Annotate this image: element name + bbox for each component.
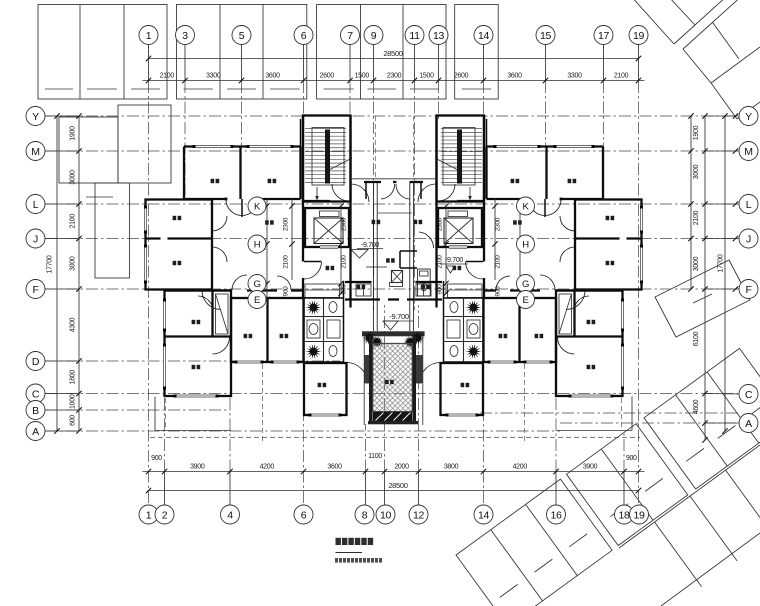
right dimension second line (690, 116, 692, 289)
title: basement third floor plan (336, 538, 341, 545)
svg-text:9: 9 (371, 30, 377, 42)
svg-text:2100: 2100 (70, 214, 77, 229)
right total dimension 17700 (724, 116, 726, 431)
row bubbles left (26, 107, 45, 126)
right unit niche (400, 250, 417, 252)
svg-text:14: 14 (478, 30, 490, 42)
grid row lines (45, 115, 738, 117)
grid column lines (148, 45, 150, 81)
context rotated building right-middle (655, 260, 750, 337)
courtyard pilasters (364, 355, 369, 383)
svg-text:3900: 3900 (583, 464, 598, 471)
stair direction arrow (316, 187, 318, 198)
svg-text:3600: 3600 (265, 73, 280, 80)
projection dashed line below middle rooms (262, 364, 264, 443)
svg-text:7: 7 (347, 30, 353, 42)
courtyard side walls (369, 336, 373, 422)
svg-text:1000: 1000 (70, 394, 77, 409)
center top wall with unit doors (364, 181, 381, 183)
svg-text:19: 19 (633, 509, 645, 521)
svg-text:8: 8 (362, 509, 368, 521)
terrace bottom-left (154, 397, 156, 431)
row bubbles right (739, 107, 758, 126)
svg-text:L: L (746, 199, 752, 211)
wing middle rooms (231, 298, 304, 362)
svg-text:2300: 2300 (495, 217, 502, 231)
svg-text:3300: 3300 (567, 73, 582, 80)
svg-text:1500: 1500 (355, 73, 370, 80)
svg-text:2: 2 (162, 509, 168, 521)
svg-text:2300: 2300 (437, 217, 444, 231)
svg-text:6: 6 (301, 509, 307, 521)
svg-text:900: 900 (626, 455, 637, 462)
svg-text:28500: 28500 (388, 481, 407, 490)
context building left side (59, 117, 118, 183)
svg-text:Y: Y (745, 111, 752, 123)
courtyard bottom wall (368, 421, 418, 424)
svg-text:A: A (745, 418, 752, 430)
context building block top-left (38, 5, 167, 100)
svg-text:1500: 1500 (419, 73, 434, 80)
svg-text:1: 1 (146, 509, 152, 521)
windows (194, 145, 232, 148)
svg-text:E: E (522, 295, 528, 306)
svg-text:19: 19 (633, 30, 645, 42)
bottom total dimension 28500 (149, 490, 639, 492)
svg-text:17700: 17700 (718, 254, 725, 272)
svg-text:2600: 2600 (320, 73, 335, 80)
room next to courtyard (304, 363, 347, 415)
courtyard hatch (373, 343, 413, 411)
svg-text:12: 12 (413, 509, 425, 521)
elevator door (320, 246, 338, 249)
svg-text:1900: 1900 (70, 126, 77, 141)
svg-text:6: 6 (301, 30, 307, 42)
dashed line below plan (150, 437, 640, 439)
svg-text:Y: Y (32, 111, 39, 123)
svg-text:4: 4 (227, 509, 233, 521)
svg-text:28500: 28500 (383, 49, 402, 58)
svg-text:10: 10 (380, 509, 392, 521)
core east wall (349, 116, 351, 308)
courtyard bottom grille (373, 412, 412, 421)
svg-text:2300: 2300 (341, 217, 348, 231)
svg-text:17: 17 (598, 30, 610, 42)
svg-text:3000: 3000 (693, 164, 700, 179)
svg-text:5: 5 (239, 30, 245, 42)
svg-text:M: M (31, 146, 39, 158)
right unit bathroom (418, 269, 431, 296)
svg-text:F: F (32, 284, 38, 296)
plants in planter cells (306, 300, 322, 315)
svg-text:15: 15 (540, 30, 552, 42)
central shaft bench (392, 271, 403, 283)
svg-text:M: M (744, 146, 752, 158)
svg-text:3000: 3000 (70, 170, 77, 185)
svg-text:13: 13 (433, 30, 445, 42)
svg-text:3: 3 (182, 30, 188, 42)
courtyard plants (362, 331, 376, 345)
courtyard outer lines (363, 336, 365, 425)
svg-text:3000: 3000 (70, 256, 77, 271)
left dimension chain (78, 116, 80, 431)
svg-text:2100: 2100 (693, 210, 700, 225)
stair landing wall and door (303, 200, 330, 202)
right dimension chain (704, 116, 706, 440)
svg-text:1: 1 (146, 30, 152, 42)
svg-text:2100: 2100 (495, 255, 502, 269)
center block top thin line (351, 178, 438, 180)
context strip bottom corner (619, 445, 760, 548)
top dimension chain (143, 80, 645, 82)
svg-text:2100: 2100 (437, 255, 444, 269)
lobby bottom wall (345, 281, 372, 283)
svg-text:1800: 1800 (70, 370, 77, 385)
svg-text:G: G (253, 279, 260, 290)
svg-text:3800: 3800 (444, 464, 459, 471)
svg-text:18: 18 (618, 509, 630, 521)
context buildings bottom-right (rotated strips) (456, 479, 612, 606)
svg-text:2100: 2100 (341, 255, 348, 269)
svg-text:K: K (522, 201, 529, 212)
svg-text:4200: 4200 (513, 464, 528, 471)
svg-text:900: 900 (437, 284, 444, 295)
svg-text:17700: 17700 (47, 255, 54, 273)
courtyard top bar (362, 331, 425, 336)
bathroom block (304, 298, 344, 362)
svg-text:11: 11 (409, 30, 420, 42)
top total dimension 28500 (149, 58, 639, 60)
center dashed construction lines (374, 116, 376, 177)
plan left half (mirrored for right wing) (144, 116, 394, 444)
svg-text:C: C (745, 389, 753, 401)
corridor double wall (372, 182, 374, 331)
stair rail (325, 130, 330, 184)
lobby cabinets (356, 284, 371, 296)
svg-text:J: J (33, 233, 38, 245)
svg-text:2100: 2100 (160, 73, 175, 80)
svg-text:D: D (32, 356, 40, 368)
svg-text:16: 16 (550, 509, 562, 521)
wing lower-left rooms (165, 291, 232, 397)
left total dimension 17700 (56, 116, 58, 431)
wing left rooms (146, 200, 213, 290)
lobby dim verticals (340, 206, 342, 294)
elevator shaft (305, 208, 349, 247)
svg-text:600: 600 (70, 415, 77, 426)
svg-text:J: J (746, 233, 751, 245)
svg-text:L: L (33, 199, 39, 211)
svg-text:A: A (32, 426, 39, 438)
svg-text:1100: 1100 (368, 453, 382, 460)
column bubbles bottom (139, 505, 158, 524)
svg-text:H: H (254, 239, 261, 250)
room labels (211, 179, 215, 183)
svg-text:3600: 3600 (507, 73, 522, 80)
svg-text:2100: 2100 (283, 255, 290, 269)
svg-text:-9.700: -9.700 (361, 242, 379, 249)
core west wall (302, 116, 304, 299)
wardrobe in strip (216, 294, 229, 334)
column bubbles top (139, 26, 158, 45)
stair core (303, 116, 351, 202)
svg-text:2300: 2300 (283, 217, 290, 231)
svg-text:-9.700: -9.700 (445, 257, 463, 264)
svg-text:6100: 6100 (693, 331, 700, 346)
svg-text:3000: 3000 (693, 256, 700, 271)
center block bottom wall (345, 298, 380, 300)
interior row bubbles K H G E (248, 197, 266, 215)
svg-text:F: F (745, 284, 751, 296)
svg-text:G: G (522, 279, 529, 290)
svg-text:B: B (32, 405, 39, 417)
svg-text:4600: 4600 (693, 399, 700, 414)
grid row B right extension (480, 412, 740, 414)
stair break line (329, 158, 352, 170)
svg-text:-9.700: -9.700 (389, 312, 409, 321)
svg-text:14: 14 (478, 509, 490, 521)
svg-text:900: 900 (151, 455, 162, 462)
bathroom fixtures (329, 302, 337, 313)
grid row A line (45, 430, 560, 432)
double door arcs at hall top (226, 200, 242, 216)
interior dim chains (266, 198, 268, 305)
svg-text:2000: 2000 (394, 464, 409, 471)
svg-text:900: 900 (283, 286, 290, 297)
corridor threshold line (378, 212, 412, 214)
svg-text:C: C (32, 388, 40, 400)
svg-text:3300: 3300 (206, 73, 221, 80)
svg-text:2600: 2600 (454, 73, 469, 80)
svg-text:900: 900 (495, 286, 502, 297)
svg-text:E: E (254, 295, 260, 306)
svg-text:1900: 1900 (693, 125, 700, 140)
context buildings top-right (rotated) (630, 0, 674, 44)
svg-text:2300: 2300 (387, 73, 402, 80)
hall door arcs (212, 216, 227, 231)
bottom dimension chain (143, 471, 645, 473)
svg-text:4200: 4200 (260, 464, 275, 471)
wing top rooms (300, 119, 302, 147)
door arc core exit (351, 184, 369, 202)
svg-text:3600: 3600 (327, 464, 342, 471)
svg-text:H: H (522, 239, 529, 250)
hall bottom wall (165, 289, 233, 291)
svg-text:3900: 3900 (190, 464, 205, 471)
svg-text:4300: 4300 (70, 317, 77, 332)
svg-text:K: K (254, 201, 261, 212)
svg-text:2100: 2100 (614, 73, 629, 80)
